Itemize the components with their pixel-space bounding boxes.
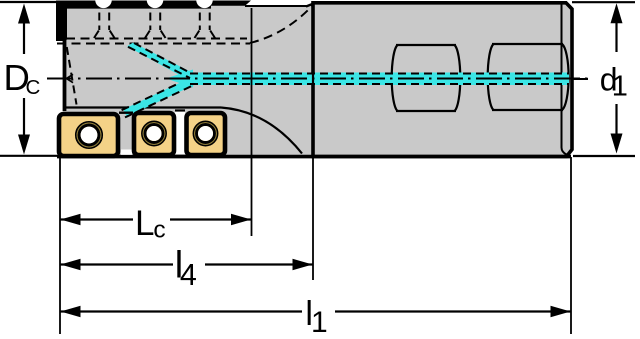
head shank boundary xyxy=(312,5,314,156)
coolant channel lower branch cyan xyxy=(123,78,193,117)
hidden screw hole lines pocket 1 xyxy=(99,13,209,31)
l4 dimension line xyxy=(60,263,173,265)
left extension line bottom dims xyxy=(59,158,61,334)
head thin top line xyxy=(245,5,307,7)
lower branch dashed edges xyxy=(122,83,179,110)
junction step diagonal xyxy=(306,4,313,7)
pocket 2 flare right xyxy=(161,31,166,39)
insert 3 xyxy=(187,113,226,155)
centerline dash-dot xyxy=(47,78,589,80)
screw 3 xyxy=(193,121,217,145)
drill cone lower xyxy=(67,79,74,83)
cutter head body xyxy=(63,5,313,157)
insert pocket floor line xyxy=(63,106,221,108)
coolant channel upper branch cyan xyxy=(127,43,197,83)
Lc extension line through body xyxy=(251,8,253,236)
pocket 3 flare right xyxy=(210,31,215,39)
top insert strip xyxy=(56,1,251,42)
body bottom edge xyxy=(57,155,571,159)
DC arrow down xyxy=(23,98,25,140)
gap 1-2 bottom white notch xyxy=(121,150,132,155)
svg-text:L: L xyxy=(135,204,154,243)
svg-text:1: 1 xyxy=(612,71,628,103)
drill cone upper xyxy=(67,74,74,78)
screw 1 xyxy=(76,122,102,148)
svg-text:c: c xyxy=(153,217,165,244)
white gap between insert 2 and 3 xyxy=(175,110,185,154)
shank body xyxy=(313,3,572,157)
l1 dimension line xyxy=(60,310,302,312)
shank groove 1 xyxy=(392,44,569,111)
hidden screw hole lines pocket 3 xyxy=(199,13,201,31)
svg-text:C: C xyxy=(26,76,41,99)
hidden pocket seat line xyxy=(66,38,247,40)
DC bottom extension line xyxy=(0,155,57,157)
d1 bottom extension line xyxy=(573,155,635,157)
svg-text:1: 1 xyxy=(311,306,328,339)
d1 top extension line xyxy=(572,1,635,3)
pocket 1 flare right xyxy=(110,31,115,39)
pocket 3 flare left xyxy=(195,31,200,39)
pocket 2 flare left xyxy=(145,31,150,39)
l4 right extension line xyxy=(312,157,314,280)
insert 1 xyxy=(59,114,118,156)
l1 right extension line xyxy=(570,157,572,334)
coolant channel junction wedge xyxy=(166,70,193,88)
notch 2 xyxy=(147,0,164,8)
upper branch dashed edges xyxy=(122,43,569,117)
d1 arrow down xyxy=(615,104,617,140)
hidden flute floor line xyxy=(57,43,250,45)
DC arrow up xyxy=(23,18,25,54)
hidden screw hole lines pocket 2 xyxy=(149,13,151,31)
hidden helix curve xyxy=(250,5,313,43)
d1 arrow up xyxy=(615,18,617,52)
DC top extension line xyxy=(0,1,58,3)
hidden front flute edge xyxy=(67,47,77,105)
flute runout curve xyxy=(221,108,302,154)
screw 2 xyxy=(142,121,166,145)
axial hole top dashed edge xyxy=(190,73,569,75)
pocket 1 flare left xyxy=(94,31,99,39)
shank groove 2 xyxy=(488,44,494,110)
gap 1-2 seat top line xyxy=(119,111,133,113)
head left edge xyxy=(63,3,67,111)
Lc dimension line xyxy=(60,218,133,220)
insert 2 xyxy=(134,113,174,155)
centerline stub right xyxy=(571,78,588,80)
coolant channel axial cyan band xyxy=(189,73,569,86)
notch 3 xyxy=(196,0,213,8)
notch 1 xyxy=(95,0,112,8)
shank chamfer line xyxy=(562,5,567,155)
axial hole bottom dashed edge xyxy=(190,83,569,85)
svg-text:4: 4 xyxy=(180,258,197,292)
